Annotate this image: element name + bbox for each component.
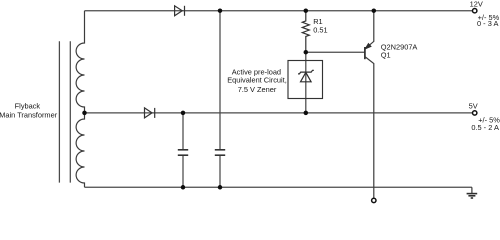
svg-text:Flyback: Flyback: [15, 102, 41, 111]
junction top rail at C2: [218, 8, 223, 13]
transistor Q1 collector: [365, 57, 374, 199]
transistor Q1 base bar: [364, 47, 366, 59]
junction top rail at Q1 emitter: [372, 8, 377, 13]
junction R1 zener base node: [304, 50, 309, 55]
transistor Q1 emitter: [365, 11, 374, 49]
label R1 value: [313, 17, 327, 34]
wire bottom rail (return): [85, 186, 472, 188]
svg-text:Q1: Q1: [381, 50, 391, 59]
capacitor C1 plates: [178, 150, 188, 155]
junction bottom rail at C2: [218, 185, 223, 190]
label active pre-load text: [227, 68, 287, 94]
svg-text:0.5 - 2 A: 0.5 - 2 A: [471, 123, 499, 132]
terminal 5V: [473, 111, 477, 115]
junction top rail at R1: [304, 8, 309, 13]
svg-text:0 - 3 A: 0 - 3 A: [477, 19, 498, 28]
label 12V output: [470, 0, 500, 28]
zener enclosure box: [288, 61, 323, 99]
wire 5V rail: [85, 112, 473, 114]
transformer T1 top winding: [76, 11, 84, 113]
wire top rail (12V): [85, 10, 473, 12]
label 5V output: [469, 101, 500, 132]
junction 5V rail at zener: [304, 111, 309, 116]
wire R1 to zener and 5V rail: [305, 52, 307, 113]
svg-text:12V: 12V: [470, 0, 483, 9]
junction 5V rail at C1: [181, 111, 186, 116]
label Flyback Main Transformer: [0, 102, 58, 120]
transformer T1 core: [59, 41, 70, 182]
capacitor C1 branch wires: [182, 113, 184, 187]
svg-text:0.51: 0.51: [313, 25, 327, 34]
ground: [467, 187, 478, 198]
wire base of Q1: [306, 51, 365, 53]
terminal 12V: [473, 9, 477, 13]
diode D2 (5V rectifier): [145, 108, 155, 118]
svg-text:5V: 5V: [469, 101, 478, 110]
label Q1: [381, 42, 418, 59]
svg-text:Equivalent Circuit,: Equivalent Circuit,: [227, 76, 287, 85]
junction bottom rail at C1: [181, 185, 186, 190]
svg-text:Main Transformer: Main Transformer: [0, 111, 58, 120]
junction 5V rail at transformer tap: [82, 111, 87, 116]
capacitor C2 branch wires: [219, 11, 221, 188]
svg-text:7.5 V Zener: 7.5 V Zener: [238, 85, 277, 94]
capacitor C2 plates: [215, 150, 225, 155]
zener diode D3 (7.5V): [298, 70, 314, 82]
terminal Q1 collector (offpage): [372, 198, 376, 202]
diode D1 (12V rectifier): [175, 6, 185, 16]
transistor Q1 emitter arrow: [365, 43, 371, 49]
resistor R1: [302, 11, 309, 53]
transformer T1 bottom winding: [76, 113, 84, 187]
